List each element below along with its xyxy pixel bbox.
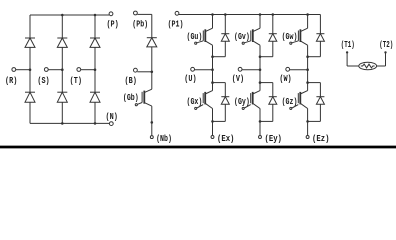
svg-text:(P1): (P1) bbox=[168, 19, 184, 29]
svg-text:(Gy): (Gy) bbox=[234, 97, 250, 107]
svg-text:(Gx): (Gx) bbox=[187, 97, 203, 107]
svg-text:(T): (T) bbox=[70, 76, 82, 86]
svg-text:(P): (P) bbox=[106, 19, 118, 29]
svg-text:(Ey): (Ey) bbox=[264, 134, 282, 144]
svg-text:(B): (B) bbox=[125, 76, 137, 86]
svg-text:(N): (N) bbox=[106, 112, 118, 122]
svg-text:(Ez): (Ez) bbox=[312, 134, 330, 144]
svg-text:(Gw): (Gw) bbox=[282, 32, 298, 42]
svg-text:(Ex): (Ex) bbox=[217, 134, 235, 144]
svg-text:(W): (W) bbox=[279, 74, 291, 84]
svg-text:(Gv): (Gv) bbox=[234, 32, 250, 42]
svg-text:(T2): (T2) bbox=[379, 40, 393, 50]
svg-text:(T1): (T1) bbox=[341, 40, 355, 50]
svg-text:(Gu): (Gu) bbox=[187, 32, 203, 42]
svg-text:(Gb): (Gb) bbox=[123, 93, 139, 103]
svg-text:(Nb): (Nb) bbox=[156, 134, 172, 144]
svg-text:(Gz): (Gz) bbox=[282, 97, 298, 107]
svg-text:(Pb): (Pb) bbox=[132, 19, 148, 29]
svg-text:(U): (U) bbox=[184, 74, 196, 84]
svg-text:(S): (S) bbox=[37, 76, 49, 86]
svg-text:(V): (V) bbox=[232, 74, 244, 84]
svg-text:(R): (R) bbox=[5, 76, 17, 86]
